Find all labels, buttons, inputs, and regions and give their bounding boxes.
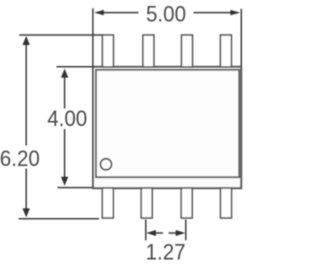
pin 7 bottom lead [181,188,192,218]
dimension 5.00 left extension line [92,8,94,66]
dimension 6.20 line lower segment with down arrowhead [25,169,27,211]
pin 4 top-right lead [220,35,231,67]
dimension 4.00 bottom extension line [58,187,93,189]
dimension 6.20 bottom extension line [19,218,99,220]
svg-text:6.20: 6.20 [0,146,40,171]
dimension 1.27 left arrow pointing left [154,232,163,234]
pin 1 top-left lead [102,35,113,67]
pin 1 index circle marker [100,159,111,170]
dimension 6.20 top extension line [19,34,102,36]
dimension 1.27 right arrow pointing right [169,232,178,234]
dimension 4.00 line upper segment with up arrowhead [64,76,66,109]
dimension 5.00 line right segment with right arrowhead [194,12,233,14]
dimension 6.20 line upper segment with up arrowhead [25,44,27,146]
svg-text:1.27: 1.27 [146,240,186,264]
package body U1 outer outline [93,67,241,188]
dimension 1.27 right extension line [185,220,187,241]
dimension 5.00 line left segment with left arrowhead [102,12,139,14]
pin 6 bottom lead [141,188,152,218]
svg-text:4.00: 4.00 [47,106,87,131]
pin 8 bottom-right lead [221,188,232,218]
pin 3 top lead [182,35,193,67]
dimension 4.00 line lower segment with down arrowhead [64,129,66,178]
pin 2 top lead [143,35,154,67]
svg-text:5.00: 5.00 [146,2,186,27]
dimension 1.27 left extension line [145,220,147,241]
dimension 4.00 top extension line [57,66,94,68]
package body top-surface inner outline [96,70,239,177]
dimension 5.00 right extension line [240,9,242,66]
pin 5 bottom-left lead [102,188,113,218]
